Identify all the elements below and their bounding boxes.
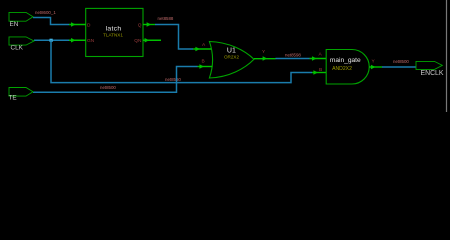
or-gate pin A arrow [193,48,211,50]
wire CLK to latch GN [34,39,69,41]
svg-text:D: D [87,22,91,28]
latch U latch [86,8,143,56]
main_gate pin B arrow [312,72,326,74]
and-gate main_gate body [326,50,369,85]
output port ENCLK [416,61,442,69]
wire CLK branch down and across to main_gate B [51,40,312,82]
svg-text:net8588: net8588 [158,16,174,21]
svg-text:net8500: net8500 [393,59,409,64]
wire U1.Y to main_gate A [276,58,310,60]
input port CLK [9,37,34,45]
wire TE up to OR gate B input [33,67,198,93]
wire latch Q down to OR gate A input [155,25,193,50]
wire main_gate.Y to ENCLK port [382,66,416,68]
svg-text:ENCLK: ENCLK [421,70,444,77]
svg-text:net8598: net8598 [285,53,301,58]
svg-text:EN: EN [10,21,19,28]
svg-text:net8500: net8500 [100,85,116,90]
main_gate pin A arrow [310,58,327,60]
wire EN to latch D (with jog down) [33,18,69,25]
svg-text:TLATNX1: TLATNX1 [103,33,123,38]
svg-text:net8560: net8560 [165,77,181,82]
or-gate output Y arrow [254,58,276,60]
junction dot on CLK wire [50,39,53,42]
pin D arrow into latch [69,24,86,26]
svg-text:CLK: CLK [11,45,24,52]
input port TE [9,88,33,97]
svg-text:U1: U1 [227,47,236,54]
pin QN arrow out of latch (dangling stub) [143,39,161,41]
window border line right [446,0,448,112]
svg-text:net8600_1: net8600_1 [35,10,56,15]
svg-text:GN: GN [87,38,95,44]
pin Q arrow out of latch [143,24,155,26]
input port EN [9,12,33,21]
svg-text:OR2X2: OR2X2 [224,55,240,60]
main_gate output Y arrow [369,66,382,68]
svg-text:B: B [319,67,322,73]
svg-text:main_gate: main_gate [330,57,361,64]
or-gate U1 body [209,42,254,79]
svg-text:TE: TE [9,95,17,102]
svg-text:Q: Q [138,22,142,28]
or-gate pin B arrow [198,66,213,68]
pin GN arrow into latch [69,39,86,41]
svg-text:QN: QN [134,38,142,44]
svg-text:B: B [202,58,205,64]
svg-text:AND2X2: AND2X2 [332,66,352,72]
